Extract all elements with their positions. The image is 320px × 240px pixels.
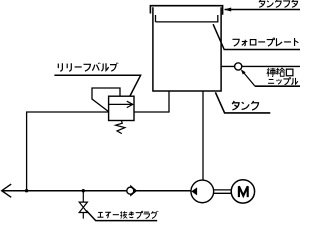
label followplate leader — [213, 24, 300, 49]
nipple circle — [235, 63, 242, 70]
motor shaft double line — [214, 190, 232, 193]
label relief valve text — [58, 63, 118, 72]
follow plate — [156, 15, 218, 22]
motor M letter — [239, 186, 248, 197]
pump triangle — [191, 187, 197, 195]
label followplate text — [232, 38, 298, 46]
pump circle — [191, 180, 214, 203]
check fitting circle — [127, 187, 134, 194]
tank body — [153, 7, 221, 91]
check fitting triangle — [130, 185, 137, 197]
relief valve box — [109, 96, 134, 120]
label air vent plug text — [97, 211, 158, 219]
relief valve arrow — [109, 101, 133, 107]
motor circle — [231, 180, 254, 203]
label tankfuta leader line with arrow — [224, 8, 300, 12]
air vent valve — [79, 191, 87, 219]
label relief valve leader — [54, 75, 140, 96]
label tank leader — [215, 92, 270, 113]
pipe from tank bottom to pump — [202, 91, 204, 181]
label nipple leader with arrow — [241, 69, 300, 86]
label hokyuko text — [267, 68, 293, 77]
pipe from tank bottom to relief valve — [134, 91, 169, 112]
junction dot left — [25, 189, 28, 192]
label tank text — [232, 101, 258, 110]
pipe from valve left going down — [27, 112, 109, 191]
tank lid — [150, 6, 222, 15]
label nipple text — [268, 77, 298, 84]
relief valve pilot polygon — [92, 88, 120, 112]
bottom discharge line — [2, 190, 191, 192]
outlet arrow head — [2, 184, 12, 197]
label air vent plug leader — [86, 211, 157, 221]
label tankfuta text — [259, 0, 298, 7]
junction dot air vent — [82, 189, 85, 192]
relief valve spring — [116, 121, 125, 134]
nipple supply line — [221, 65, 300, 67]
